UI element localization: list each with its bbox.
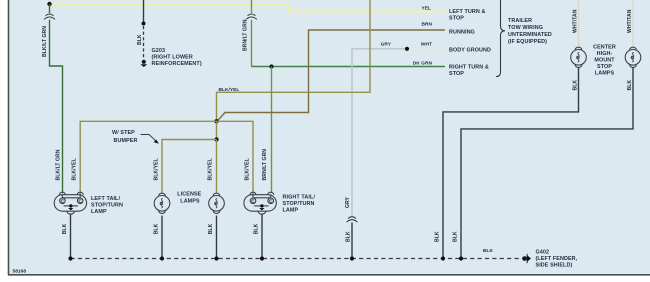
- lamp: RIGHT TAIL/STOP/TURN LAMP: [244, 192, 276, 214]
- svg-text:G203: G203: [152, 48, 166, 54]
- svg-text:LEFT TAIL/: LEFT TAIL/: [91, 196, 120, 202]
- wire BLK license lamp 1 ground: [161, 216, 163, 259]
- svg-text:BLK/YEL: BLK/YEL: [208, 158, 214, 180]
- wire BLK/LT GRN to left tail lamp: [50, 20, 63, 193]
- wire BLK/LT GRN upper segment: [49, 4, 51, 13]
- svg-text:LAMPS: LAMPS: [180, 199, 200, 205]
- wire BLK/YEL to license lamp 2: [216, 140, 218, 194]
- svg-text:BLK/YEL: BLK/YEL: [72, 158, 78, 180]
- svg-text:MOUNT: MOUNT: [594, 58, 615, 64]
- svg-text:WHT/TAN: WHT/TAN: [573, 9, 579, 33]
- wire BLK/YEL right branch to right tail lamp: [217, 121, 254, 194]
- svg-text:GRY: GRY: [381, 42, 392, 48]
- svg-text:DK GRN: DK GRN: [413, 61, 433, 67]
- svg-text:TRAILER: TRAILER: [508, 18, 532, 24]
- svg-text:LAMP: LAMP: [91, 209, 107, 215]
- svg-text:BLK/LT GRN: BLK/LT GRN: [56, 149, 62, 180]
- wire BLK lamp2 down-left: [461, 67, 633, 258]
- svg-text:BLK: BLK: [573, 80, 579, 91]
- svg-text:BUMPER: BUMPER: [114, 138, 138, 144]
- wire BLK dashed ground bus: [71, 258, 522, 260]
- wire GRY: [352, 49, 407, 216]
- node: junction dot dk grn: [269, 64, 273, 68]
- svg-text:WHT: WHT: [421, 42, 432, 48]
- svg-text:TOW WIRING: TOW WIRING: [508, 25, 543, 31]
- wire BRN/LT GRN down to right tail lamp: [271, 67, 273, 194]
- wire WHT/TAN lamp 2: [632, 0, 634, 49]
- svg-text:LICENSE: LICENSE: [177, 192, 201, 198]
- svg-text:RIGHT TAIL/: RIGHT TAIL/: [283, 195, 316, 201]
- label TRAILER TOW WIRING UNTERMINATED (IF EQUIPPED): [508, 18, 552, 45]
- svg-text:STOP: STOP: [449, 16, 464, 22]
- wire BLK license lamp 2 ground: [216, 216, 218, 259]
- wire YEL (left turn & stop): [50, 4, 445, 12]
- svg-text:LAMPS: LAMPS: [595, 71, 615, 77]
- wire BLK left tail lamp ground: [70, 214, 72, 258]
- connector in-line (BRN/LT GRN): [246, 14, 257, 19]
- lamp: CENTER HIGH-MOUNT STOP LAMP 1: [571, 47, 587, 67]
- node: splice dot: [142, 22, 146, 26]
- svg-text:(IF EQUIPPED): (IF EQUIPPED): [508, 39, 547, 45]
- svg-text:WHT/TAN: WHT/TAN: [627, 9, 633, 33]
- wire DK GRN (right turn & stop): [252, 66, 446, 68]
- svg-text:BLK: BLK: [154, 223, 160, 234]
- svg-text:BLK: BLK: [254, 223, 260, 234]
- frame bottom border: [8, 274, 650, 276]
- svg-text:BLK/YEL: BLK/YEL: [245, 158, 251, 180]
- label CENTER HIGH-MOUNT STOP LAMPS: [593, 45, 616, 77]
- svg-text:58168: 58168: [13, 269, 27, 275]
- svg-text:BLK/YEL: BLK/YEL: [154, 158, 160, 180]
- svg-text:G402: G402: [536, 249, 550, 255]
- svg-text:REINFORCEMENT): REINFORCEMENT): [152, 61, 202, 67]
- lamp: LICENSE LAMP 1: [154, 193, 170, 213]
- wire BLK below connector: [351, 223, 353, 259]
- label LICENSE LAMPS: [177, 192, 201, 205]
- svg-text:BRN/LT GRN: BRN/LT GRN: [243, 19, 249, 51]
- wire BLK/YEL left branch to left tail lamp: [80, 121, 216, 194]
- svg-text:BLK: BLK: [627, 80, 633, 91]
- svg-text:CENTER: CENTER: [593, 45, 616, 51]
- lamp: LICENSE LAMP 2: [209, 193, 225, 213]
- wire BLK/YEL down to dot2: [216, 121, 218, 139]
- node A: junction dot1: [214, 119, 218, 123]
- svg-text:BRN: BRN: [421, 22, 432, 28]
- node: junction dot wht: [405, 47, 409, 51]
- svg-text:BRN/LT GRN: BRN/LT GRN: [262, 149, 268, 181]
- wire WHT (body ground): [407, 48, 445, 50]
- wire BLK/YEL main riser: [217, 0, 371, 121]
- svg-text:STOP/TURN: STOP/TURN: [283, 201, 315, 207]
- wire BLK right tail lamp ground: [261, 214, 263, 258]
- connector in-line (GRY/BLK): [347, 217, 358, 222]
- lamp: CENTER HIGH-MOUNT STOP LAMP 2: [625, 47, 641, 67]
- wire BRN/LT GRN down to DK GRN corner: [251, 20, 253, 67]
- label G203 (RIGHT LOWER REINFORCEMENT): [152, 48, 202, 67]
- svg-text:BLK: BLK: [483, 248, 493, 254]
- node B: junction dot2: [214, 137, 218, 141]
- svg-text:RIGHT TURN &: RIGHT TURN &: [449, 65, 489, 71]
- frame left border: [8, 0, 10, 275]
- svg-text:BLK: BLK: [453, 231, 459, 242]
- svg-text:STOP: STOP: [597, 64, 612, 70]
- node: ground bus junction dots: [68, 256, 463, 260]
- label LEFT TAIL/STOP/TURN LAMP: [91, 196, 123, 215]
- node: junction dot yellow/green: [47, 2, 51, 6]
- svg-text:BODY GROUND: BODY GROUND: [449, 48, 491, 54]
- svg-text:LEFT TURN &: LEFT TURN &: [449, 9, 485, 15]
- wire BRN/LT GRN upper segment: [251, 0, 253, 13]
- wire BRN (running): [217, 30, 445, 121]
- svg-text:BLK: BLK: [346, 231, 352, 242]
- svg-text:UNTERMINATED: UNTERMINATED: [508, 32, 552, 38]
- svg-text:GRY: GRY: [345, 196, 351, 208]
- svg-text:BLK: BLK: [62, 223, 68, 234]
- label G402 (LEFT FENDER, SIDE SHIELD): [536, 249, 578, 268]
- svg-text:RUNNING: RUNNING: [449, 30, 475, 36]
- svg-text:HIGH-: HIGH-: [597, 51, 613, 57]
- wire BLK/YEL to license lamp 1: [162, 140, 217, 194]
- ground G203 symbol: [140, 60, 147, 67]
- svg-text:(RIGHT LOWER: (RIGHT LOWER: [152, 55, 193, 61]
- wire BLK to G203: [143, 0, 145, 24]
- svg-text:BLK: BLK: [137, 34, 143, 45]
- svg-text:BLK/YEL: BLK/YEL: [219, 87, 240, 93]
- wire BLK lamp1 down-left: [443, 67, 579, 258]
- brace trailer tow wiring: [496, 0, 505, 77]
- wire WHT/TAN lamp 1: [578, 0, 580, 49]
- svg-text:YEL: YEL: [422, 6, 431, 12]
- label RIGHT TAIL/STOP/TURN LAMP: [283, 195, 316, 214]
- svg-text:BLK: BLK: [435, 231, 441, 242]
- svg-text:STOP/TURN: STOP/TURN: [91, 203, 123, 209]
- svg-text:SIDE SHIELD): SIDE SHIELD): [536, 262, 573, 268]
- svg-text:(LEFT FENDER,: (LEFT FENDER,: [536, 256, 578, 262]
- svg-text:W/ STEP: W/ STEP: [112, 130, 135, 136]
- ground G402 symbol: [522, 254, 531, 263]
- lamp: LEFT TAIL/STOP/TURN LAMP: [54, 192, 86, 214]
- svg-text:LAMP: LAMP: [283, 208, 299, 214]
- callout W/ STEP BUMPER: [112, 130, 159, 144]
- wire BLK dashed to ground: [143, 26, 145, 59]
- label BODY GROUND / stub labels: [449, 9, 491, 77]
- svg-text:BLK: BLK: [208, 223, 214, 234]
- connector in-line (BLK/LT GRN): [44, 14, 55, 19]
- svg-text:STOP: STOP: [449, 71, 464, 77]
- svg-text:BLK/LT GRN: BLK/LT GRN: [42, 26, 48, 57]
